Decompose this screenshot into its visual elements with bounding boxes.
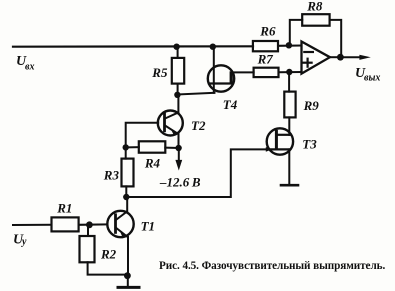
node R4 left / T2 base <box>123 144 129 150</box>
wire input U_y <box>13 224 52 226</box>
op-amp U1 <box>302 42 330 74</box>
node R4 right / T2 emitter <box>175 145 181 151</box>
resistor R2 <box>80 236 95 262</box>
svg-text:Т1: Т1 <box>141 219 155 234</box>
svg-text:R4: R4 <box>144 156 161 171</box>
transistor T4 <box>208 47 234 93</box>
wire feedback left riser <box>290 20 302 45</box>
wire op-amp output <box>330 56 341 58</box>
svg-text:R3: R3 <box>103 168 120 183</box>
wire T1 emitter <box>127 237 129 276</box>
wire R3 top lead to T2 base node <box>125 147 127 158</box>
wire output with arrow <box>340 56 360 58</box>
ground under T1 <box>118 286 139 289</box>
wire R1 to T1 base <box>79 223 108 225</box>
transistor T1 <box>107 211 133 238</box>
power arrow -12.6V <box>178 148 180 161</box>
ground under T3 <box>281 184 298 187</box>
resistor R1 <box>52 217 79 231</box>
wire T4 base lead to R7 <box>233 71 254 73</box>
resistor R9 <box>284 92 295 118</box>
wire T3 base to control net <box>126 149 266 197</box>
svg-text:R6: R6 <box>259 24 276 39</box>
transistor T3 <box>266 128 293 154</box>
node op-amp non-inverting input <box>286 69 292 75</box>
node op-amp inverting input <box>286 42 292 48</box>
wire R7 to op-amp non-inverting input <box>279 71 302 73</box>
wire R4 right lead <box>165 147 178 149</box>
wire non-inverting input to R9 <box>288 72 290 92</box>
svg-text:R8: R8 <box>306 0 323 14</box>
transistor T2 <box>158 111 183 136</box>
svg-text:Т4: Т4 <box>223 97 238 112</box>
wire T2 collector <box>177 95 179 113</box>
wire T3 emitter to ground <box>288 149 290 185</box>
resistor R4 <box>139 141 166 152</box>
svg-text:R2: R2 <box>100 247 117 262</box>
svg-text:Т2: Т2 <box>191 118 206 133</box>
resistor R8 <box>302 14 329 26</box>
wire R5 bottom lead <box>177 84 179 95</box>
wire T2 emitter to R4 right node <box>178 133 180 148</box>
wire emitter node to ground <box>127 276 129 288</box>
wire R4 left lead <box>126 146 139 148</box>
wire T1 collector riser <box>126 197 128 211</box>
svg-text:Рис. 4.5. Фазочувствительный в: Рис. 4.5. Фазочувствительный выпрямитель… <box>159 260 385 272</box>
wire R5 top lead <box>177 47 179 58</box>
label U_vx <box>16 54 34 72</box>
wire R9 to T3 collector <box>288 117 290 134</box>
wire node R5 to T4 emitter <box>177 93 214 95</box>
node T1 emitter / R2 <box>124 272 131 279</box>
svg-text:вых: вых <box>364 73 380 84</box>
resistor R6 <box>253 41 278 51</box>
node R1 / R2 / T1 base <box>86 221 93 228</box>
wire R6 to op-amp inverting input <box>278 45 302 47</box>
resistor R5 <box>172 58 184 84</box>
node top rail / R5 <box>173 44 179 50</box>
wire R2 top lead <box>87 225 89 236</box>
svg-text:R9: R9 <box>303 98 320 113</box>
resistor R3 <box>122 159 134 187</box>
svg-text:вх: вх <box>25 61 34 72</box>
wire top input rail <box>13 45 253 48</box>
svg-text:у: у <box>21 236 27 247</box>
wire T2 base lead <box>126 123 159 148</box>
label U_vyx <box>355 66 380 84</box>
node top rail / T4 <box>210 44 216 50</box>
wire R3 bottom lead <box>125 186 127 197</box>
node output <box>337 54 344 61</box>
node R3 bottom junction <box>123 194 129 200</box>
node R5 bottom <box>174 92 180 98</box>
svg-text:–12.6 В: –12.6 В <box>159 175 201 190</box>
svg-text:R1: R1 <box>56 201 72 216</box>
label U_y <box>13 232 27 247</box>
resistor R7 <box>254 68 279 77</box>
wire feedback right drop <box>330 20 342 57</box>
svg-text:R5: R5 <box>151 65 168 80</box>
svg-text:R7: R7 <box>257 51 274 66</box>
svg-text:Т3: Т3 <box>302 137 317 152</box>
wire R2 bottom to T1 emitter node <box>88 262 128 274</box>
